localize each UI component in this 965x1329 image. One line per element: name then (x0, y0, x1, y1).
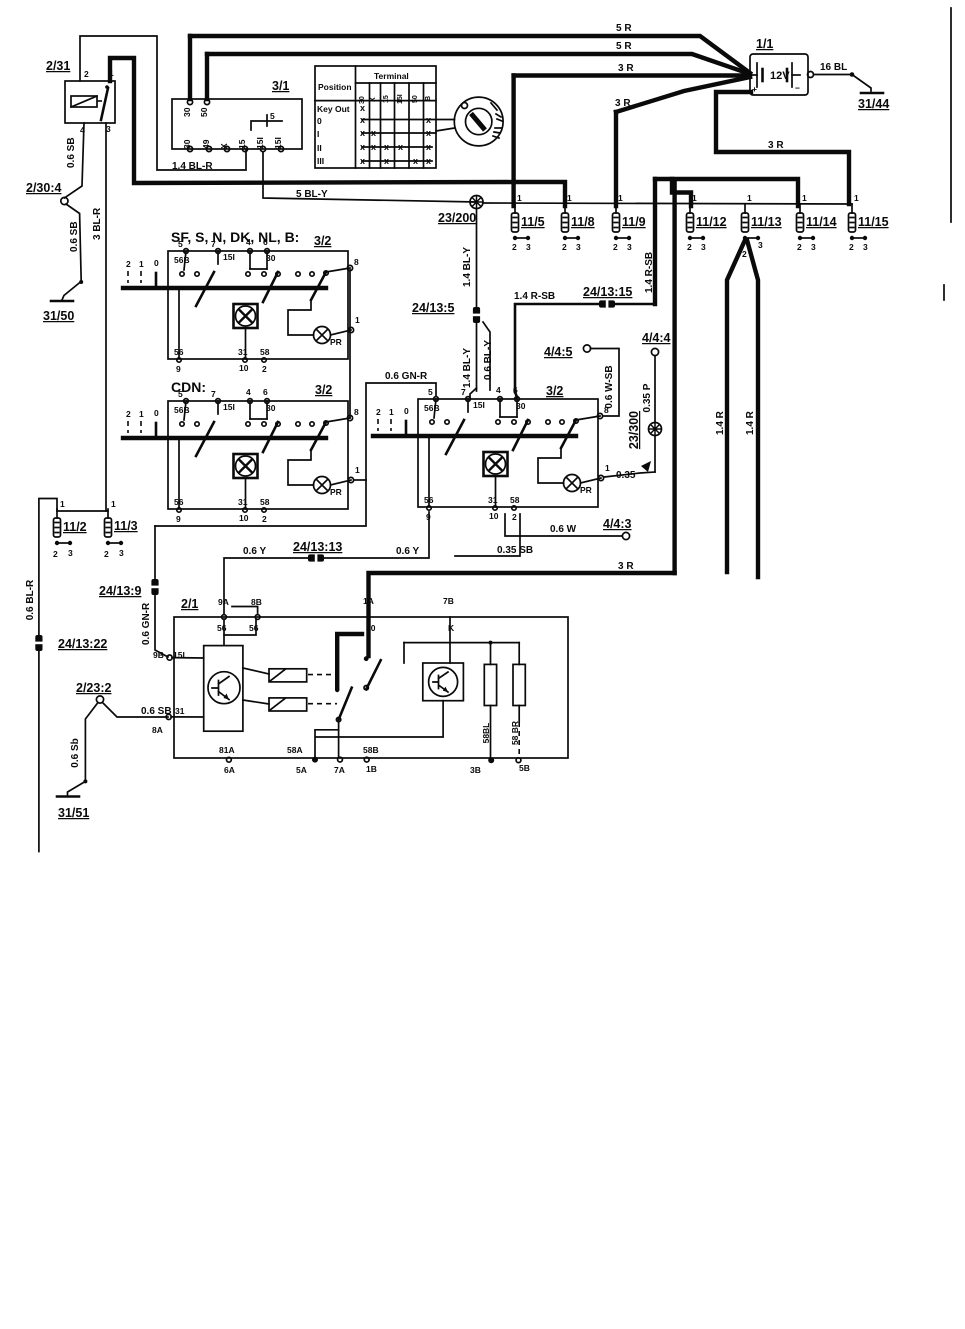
svg-text:5A: 5A (296, 765, 307, 775)
svg-text:0.6 W-SB: 0.6 W-SB (604, 365, 615, 408)
fuse bus (483, 203, 852, 204)
svg-text:X: X (370, 97, 377, 102)
svg-text:3: 3 (119, 548, 124, 558)
svg-text:15I: 15I (273, 137, 283, 149)
svg-text:7B: 7B (443, 596, 454, 606)
wire 0.35 P through 23/300 (654, 356, 656, 423)
svg-text:30: 30 (366, 623, 376, 633)
wire 0.6 BL-R from fuse 11/2 down through 24/13:22 (39, 499, 57, 852)
svg-text:1.4 BL-R: 1.4 BL-R (172, 161, 213, 172)
ignition switch 3/1 (172, 36, 302, 172)
svg-text:1: 1 (747, 193, 752, 203)
svg-text:1/1: 1/1 (756, 37, 773, 51)
svg-text:31: 31 (175, 706, 185, 716)
transistor U2 (423, 663, 464, 701)
wire 3 R from fuse area down and across to 2/1 pin 1A (672, 180, 676, 573)
svg-text:III: III (317, 156, 324, 166)
svg-text:6A: 6A (224, 765, 235, 775)
svg-text:31/50: 31/50 (43, 309, 74, 323)
svg-text:0.6 GN-R: 0.6 GN-R (385, 371, 428, 382)
svg-text:1: 1 (109, 68, 114, 78)
bottom pins (227, 757, 232, 762)
wire linking fuse 11/2 and 11/3 pin 1 (57, 510, 108, 512)
svg-text:3: 3 (68, 548, 73, 558)
svg-text:x: x (360, 115, 365, 125)
svg-text:15: 15 (383, 95, 390, 103)
svg-text:1: 1 (60, 499, 65, 509)
svg-text:Terminal: Terminal (374, 71, 409, 81)
svg-text:50: 50 (199, 107, 209, 117)
wire 0.35 SB from hazard pin 2 (455, 514, 520, 556)
svg-text:3 R: 3 R (615, 98, 631, 109)
flasher relay 2/1 (152, 596, 568, 775)
svg-text:7A: 7A (334, 765, 345, 775)
wire thick feed to 11/9 (614, 112, 618, 206)
wire CDN pin 1 to vertical (354, 479, 366, 481)
wire 0.6 Y from hazard pin 9 through 24/13:13 to 2/1 pin 9A (224, 512, 429, 614)
wire 0.6 W-SB to hazard pin 8 (591, 349, 620, 417)
wire 3 BL-R from 2/31 pin 3 down to fuse 11/3 (105, 123, 107, 511)
svg-text:1: 1 (692, 193, 697, 203)
battery 1/1 (750, 37, 814, 95)
svg-text:1: 1 (111, 499, 116, 509)
svg-text:x: x (413, 156, 418, 166)
svg-text:B: B (425, 96, 432, 101)
svg-text:5 R: 5 R (616, 41, 632, 52)
svg-text:2: 2 (613, 242, 618, 252)
svg-text:x: x (398, 142, 403, 152)
connector 24/13:22 (34, 635, 43, 651)
relay contact (337, 634, 362, 688)
ground 31/44 (861, 92, 883, 95)
svg-text:3: 3 (627, 242, 632, 252)
svg-text:1.4 BL-Y: 1.4 BL-Y (462, 348, 473, 388)
svg-text:3: 3 (526, 242, 531, 252)
svg-text:II: II (317, 143, 322, 153)
svg-text:1: 1 (517, 193, 522, 203)
svg-text:30: 30 (182, 139, 192, 149)
svg-text:23/200: 23/200 (438, 211, 476, 225)
page edge mark (950, 8, 952, 222)
svg-text:1.4 R-SB: 1.4 R-SB (644, 252, 655, 293)
svg-text:0.6 Y: 0.6 Y (243, 546, 266, 557)
svg-text:1A: 1A (363, 596, 374, 606)
svg-text:SF, S, N, DK, NL, B:: SF, S, N, DK, NL, B: (171, 229, 299, 245)
svg-text:x: x (360, 103, 365, 113)
svg-text:9B: 9B (153, 650, 164, 660)
svg-text:2/23:2: 2/23:2 (76, 681, 111, 695)
svg-text:0.35: 0.35 (616, 470, 636, 481)
connector 23/200 (470, 196, 483, 209)
fuse 11/14 (797, 204, 816, 240)
svg-text:15I: 15I (397, 94, 404, 104)
wire 5 R feed 1 (190, 36, 750, 73)
svg-text:3 R: 3 R (618, 561, 634, 572)
wire 3 R feed 4 from 11/9 column (616, 77, 750, 112)
svg-text:11/15: 11/15 (858, 215, 889, 229)
fuse 11/9 (613, 204, 632, 240)
svg-text:9A: 9A (218, 597, 229, 607)
svg-text:2/1: 2/1 (181, 597, 198, 611)
svg-text:56: 56 (217, 623, 227, 633)
svg-text:x: x (360, 142, 365, 152)
coil L1 (269, 669, 307, 682)
svg-text:31/51: 31/51 (58, 806, 89, 820)
fuse 11/2 (54, 509, 73, 545)
wire 0.35 P from hazard pin 1 (604, 472, 655, 477)
svg-text:8A: 8A (152, 725, 163, 735)
svg-text:3 BL-R: 3 BL-R (92, 207, 103, 240)
fuse 11/8 (562, 204, 581, 240)
svg-text:K: K (448, 623, 455, 633)
svg-text:2: 2 (53, 549, 58, 559)
svg-text:1: 1 (854, 193, 859, 203)
svg-text:2/31: 2/31 (46, 59, 70, 73)
svg-text:3/2: 3/2 (315, 383, 332, 397)
svg-text:3: 3 (811, 242, 816, 252)
svg-text:X: X (219, 143, 229, 149)
wire 0.6 SB from 2/31 pin 4 (64, 123, 84, 198)
wire 16 BL to ground 31/44 (814, 75, 871, 92)
svg-text:11/3: 11/3 (114, 519, 138, 533)
svg-text:11/14: 11/14 (806, 215, 837, 229)
svg-text:1.4 R: 1.4 R (715, 410, 726, 435)
svg-text:1.4 R-SB: 1.4 R-SB (514, 291, 555, 302)
svg-text:3/2: 3/2 (546, 384, 563, 398)
wire 1.4 R-SB jog to hazard pin 6 (515, 392, 517, 397)
svg-text:11/13: 11/13 (751, 215, 782, 229)
svg-text:x: x (360, 156, 365, 166)
svg-text:24/13:5: 24/13:5 (412, 301, 454, 315)
fuse 11/12 (687, 204, 706, 240)
connector 23/300 (649, 423, 662, 436)
svg-text:31/44: 31/44 (858, 97, 889, 111)
svg-text:x: x (426, 142, 431, 152)
svg-text:0: 0 (317, 116, 322, 126)
svg-text:2: 2 (84, 69, 89, 79)
connector 2/30:4 (61, 197, 68, 204)
svg-text:4/4:5: 4/4:5 (544, 345, 573, 359)
svg-text:CDN:: CDN: (171, 379, 206, 395)
svg-text:3: 3 (701, 242, 706, 252)
svg-text:81A: 81A (219, 745, 235, 755)
svg-text:23/300: 23/300 (627, 411, 641, 449)
svg-text:1: 1 (567, 193, 572, 203)
relay 2/31 (46, 59, 115, 135)
svg-text:2: 2 (512, 242, 517, 252)
fuse 11/5 (512, 204, 531, 240)
svg-text:24/13:15: 24/13:15 (583, 285, 632, 299)
wire 0.6 GN-R down through 24/13:9 to 2/1 pin 9B (155, 526, 168, 657)
svg-text:3/2: 3/2 (314, 234, 331, 248)
svg-text:11/12: 11/12 (696, 215, 727, 229)
svg-text:1B: 1B (366, 764, 377, 774)
fuse 11/3 (105, 509, 124, 545)
svg-text:11/9: 11/9 (622, 215, 646, 229)
svg-text:5 R: 5 R (616, 23, 632, 34)
relay K 2/31 thick feed wire pin1 to bus 3R (110, 58, 514, 183)
wire 5 R feed 2 (207, 54, 750, 74)
wire thick feed to 11/5 and 11/8 (511, 76, 515, 207)
svg-text:24/13:9: 24/13:9 (99, 584, 141, 598)
svg-text:5B: 5B (519, 763, 530, 773)
svg-text:x: x (384, 156, 389, 166)
svg-text:11/5: 11/5 (521, 215, 545, 229)
wire 5 BL-Y from 3/1 pin 15I to 23/200 (263, 152, 477, 202)
svg-text:2: 2 (687, 242, 692, 252)
svg-text:2: 2 (562, 242, 567, 252)
svg-text:2: 2 (104, 549, 109, 559)
svg-text:x: x (426, 156, 431, 166)
resistor R2 58BR (513, 664, 525, 705)
wire 1.4 R-SB through 24/13:15 (515, 304, 655, 392)
transistor U1 (204, 646, 243, 732)
svg-text:x: x (384, 142, 389, 152)
wire 1.4 BL-Y down through 24/13:5 (476, 209, 478, 392)
coil L2 (269, 698, 307, 711)
wire 0.6 GN-R from CDN area to hazard pin 5 (155, 383, 436, 526)
svg-text:50: 50 (412, 95, 419, 103)
svg-text:30: 30 (182, 107, 192, 117)
svg-text:2: 2 (742, 249, 747, 259)
svg-text:0.6 GN-R: 0.6 GN-R (141, 602, 152, 645)
svg-text:24/13:13: 24/13:13 (293, 540, 342, 554)
svg-text:0.6 SB: 0.6 SB (66, 137, 77, 168)
svg-text:15I: 15I (255, 137, 265, 149)
svg-text:5 BL-Y: 5 BL-Y (296, 189, 328, 200)
wire thick feed to 11/12 and 11/14 (655, 179, 798, 206)
svg-text:0.6 Y: 0.6 Y (396, 546, 419, 557)
svg-text:1: 1 (802, 193, 807, 203)
svg-text:Key Out: Key Out (317, 104, 350, 114)
svg-text:11/8: 11/8 (571, 215, 595, 229)
svg-text:56: 56 (249, 623, 259, 633)
svg-text:11/2: 11/2 (63, 520, 87, 534)
svg-text:1.4 R: 1.4 R (745, 410, 756, 435)
ground 31/50 (51, 300, 73, 303)
svg-text:15: 15 (237, 139, 247, 149)
svg-text:x: x (371, 128, 376, 138)
svg-text:Position: Position (318, 82, 352, 92)
svg-text:3 R: 3 R (618, 63, 634, 74)
svg-text:3/1: 3/1 (272, 79, 289, 93)
svg-text:8B: 8B (251, 597, 262, 607)
wire 1.4 R pair from 11/13 down to 3/3 (727, 240, 745, 572)
wire 0.6 BL-Y (483, 322, 490, 390)
svg-text:0.6 W: 0.6 W (550, 524, 577, 535)
svg-text:3 R: 3 R (768, 140, 784, 151)
ignition key (454, 97, 503, 146)
ground 31/51 (57, 795, 79, 798)
svg-text:49: 49 (201, 139, 211, 149)
svg-text:x: x (360, 128, 365, 138)
fuse 11/13 (742, 204, 761, 240)
svg-text:x: x (426, 128, 431, 138)
svg-text:0.35 SB: 0.35 SB (497, 545, 533, 556)
resistor R1 58BL (484, 664, 496, 705)
relay K 2/31 wire from pin 2 to node (80, 36, 246, 170)
wire 0.6 SB to ground 31/51 (68, 703, 99, 796)
key position table (315, 66, 455, 168)
svg-text:24/13:22: 24/13:22 (58, 637, 107, 651)
svg-text:3B: 3B (470, 765, 481, 775)
svg-text:58A: 58A (287, 745, 303, 755)
svg-text:0.6 BL-Y: 0.6 BL-Y (483, 340, 494, 380)
svg-text:4/4:4: 4/4:4 (642, 331, 671, 345)
wire pin8 chain down to CDN switch (349, 270, 351, 418)
svg-text:58B: 58B (363, 745, 379, 755)
wire 3 R feed 3 (514, 73, 750, 77)
wire 1.4 BL-Y jog to hazard pin 7 (470, 388, 477, 397)
svg-text:2: 2 (797, 242, 802, 252)
svg-text:58BL: 58BL (481, 723, 491, 744)
fuse 11/15 (849, 204, 868, 240)
svg-text:0.6 Sb: 0.6 Sb (70, 738, 81, 767)
svg-text:x: x (371, 142, 376, 152)
svg-text:I: I (317, 129, 319, 139)
svg-text:0.35 P: 0.35 P (642, 383, 653, 412)
svg-text:3: 3 (863, 242, 868, 252)
svg-text:4/4:3: 4/4:3 (603, 517, 632, 531)
svg-text:2: 2 (849, 242, 854, 252)
wire 3 R battery to fuse 11/15 (716, 92, 849, 204)
wire 2/1 pin 8B jog (232, 607, 258, 614)
svg-text:1.4 BL-Y: 1.4 BL-Y (462, 247, 473, 287)
wire 0.6 SB to ground (62, 204, 81, 300)
svg-text:3: 3 (576, 242, 581, 252)
wire 0.6 SB to 2/1 pin 31 (103, 703, 169, 718)
svg-text:16 BL: 16 BL (820, 62, 847, 73)
svg-text:1: 1 (618, 193, 623, 203)
svg-text:0.6 SB: 0.6 SB (69, 221, 80, 252)
svg-text:3: 3 (758, 240, 763, 250)
svg-text:−: − (795, 83, 800, 93)
svg-text:5: 5 (270, 111, 275, 121)
svg-text:2/30:4: 2/30:4 (26, 181, 61, 195)
svg-text:x: x (426, 115, 431, 125)
svg-text:0.6 BL-R: 0.6 BL-R (25, 579, 36, 620)
